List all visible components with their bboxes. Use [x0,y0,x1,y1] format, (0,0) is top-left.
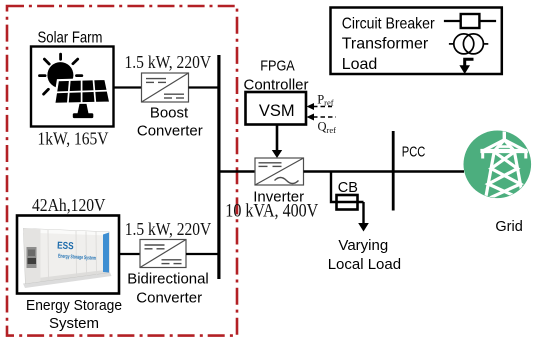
load arrow (varying local load) [358,202,369,232]
top face [24,229,110,236]
svg-text:Solar Farm: Solar Farm [38,30,103,47]
svg-text:Bidirectional: Bidirectional [127,271,209,288]
grid icon [464,129,532,200]
Pref input arrow [307,92,334,110]
wire solar box to boost converter [114,86,142,88]
svg-text:CB: CB [338,180,358,196]
svg-text:Load: Load [342,56,378,73]
bottom rail [26,270,110,284]
svg-text:System: System [49,315,99,332]
svg-text:Converter: Converter [136,290,202,307]
svg-text:ESS: ESS [57,241,74,253]
legend transformer symbol [449,34,488,54]
svg-text:1.5 kW, 220V: 1.5 kW, 220V [125,219,212,239]
bidirectional converter [140,240,186,268]
svg-text:Boost: Boost [150,104,189,121]
label Bidirectional Converter [127,271,209,307]
svg-text:42Ah,120V: 42Ah,120V [32,195,106,215]
solar farm box [31,47,114,127]
left end face [24,229,41,284]
label Varying Local Load [328,237,401,273]
svg-text:1kW, 165V: 1kW, 165V [38,128,109,148]
CB branch wire [331,172,364,203]
svg-text:FPGA: FPGA [260,58,295,75]
sun [47,62,73,88]
label Boost Converter [137,104,203,139]
legend labels [342,16,436,74]
panel stand [78,104,89,114]
inverter [255,158,304,185]
AC line inverter to grid [304,170,465,172]
svg-text:10 kVA, 400V: 10 kVA, 400V [225,202,319,222]
ESS container icon [23,229,112,289]
solar farm icon [40,54,111,118]
wire boost converter to DC bus [189,86,220,88]
svg-text:Local Load: Local Load [328,256,401,273]
label FPGA Controller [243,58,308,94]
blue stripe [103,233,109,273]
circuit breaker CB [337,195,358,210]
Qref input arrow [307,114,337,136]
DC bus [217,55,220,279]
svg-text:Grid: Grid [495,219,522,235]
svg-text:Varying: Varying [338,237,388,254]
container body [24,229,110,284]
microgrid boundary red dash-dot box [7,6,237,336]
label Energy Storage System [26,297,122,332]
svg-text:VSM: VSM [259,102,295,120]
wire bidirectional converter to DC bus [186,253,219,255]
energy storage box [17,216,119,294]
svg-text:Transformer: Transformer [342,35,429,52]
legend load symbol [459,59,473,74]
VSM controller box [246,92,307,125]
svg-text:Energy Storage: Energy Storage [26,297,122,314]
legend circuit breaker symbol [444,14,496,28]
control arrow VSM to inverter [272,125,282,159]
svg-text:PCC: PCC [402,145,426,161]
svg-text:1.5 kW, 220V: 1.5 kW, 220V [125,52,212,72]
ribs [48,230,97,281]
svg-text:Converter: Converter [137,123,203,140]
wire DC bus to inverter [219,170,255,172]
boost converter [142,73,189,102]
wire ESS to bidirectional converter [119,253,140,255]
shadow [23,273,112,289]
PCC bus bar [392,131,395,211]
svg-text:Circuit Breaker: Circuit Breaker [342,16,436,33]
left end machinery [27,247,37,268]
solar panel [54,79,110,104]
legend box [331,8,502,75]
